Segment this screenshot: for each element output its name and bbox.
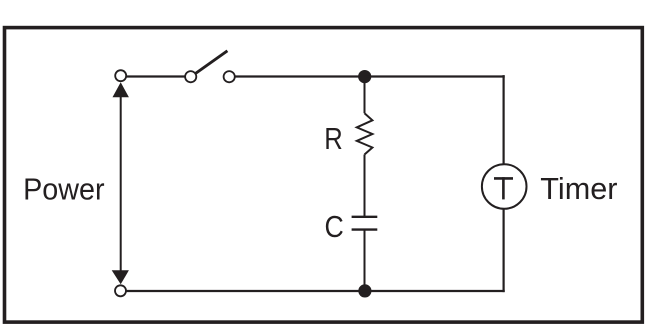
terminal bottom-left <box>115 285 126 296</box>
wire capacitor to bottom junction <box>364 230 366 291</box>
label Timer <box>540 171 617 206</box>
svg-text:R: R <box>324 122 343 156</box>
switch S1 <box>185 51 235 82</box>
svg-text:Timer: Timer <box>540 171 617 206</box>
junction node top <box>358 70 371 83</box>
wire right vertical upper (to timer) <box>503 75 505 163</box>
resistor R <box>357 113 373 154</box>
svg-text:C: C <box>325 210 344 244</box>
timer T1 <box>482 164 527 209</box>
wire resistor to capacitor <box>364 155 366 217</box>
terminal top-left <box>115 70 126 81</box>
wire top segment (junction to right corner) <box>365 75 505 77</box>
wire bottom horizontal <box>126 290 505 292</box>
capacitor C <box>352 217 378 230</box>
svg-text:Power: Power <box>23 171 105 206</box>
wire top segment (switch to junction) <box>235 75 365 77</box>
wire top segment (terminal to switch) <box>126 75 184 77</box>
label Power <box>23 171 105 206</box>
label R <box>324 122 343 156</box>
junction node bottom <box>358 284 371 297</box>
wire junction to resistor <box>364 77 366 114</box>
wire timer to bottom wire <box>503 209 505 292</box>
label C <box>325 210 344 244</box>
power arrow (double-headed) <box>112 82 129 284</box>
